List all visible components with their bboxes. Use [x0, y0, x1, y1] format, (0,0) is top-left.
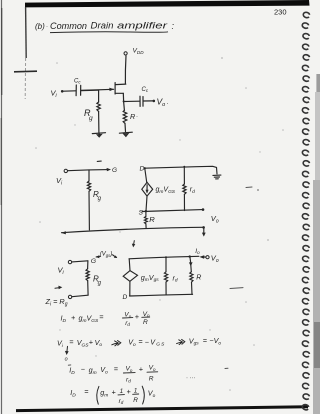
- arrow between circuits: [132, 241, 136, 248]
- CIRCUIT 2 : small-signal equivalent: [61, 161, 221, 237]
- resistor RL 2: [144, 211, 147, 228]
- svg-text:G: G: [112, 167, 117, 174]
- node Vi- terminal 3: [68, 295, 71, 298]
- wire source to D rail: [129, 282, 131, 296]
- dependent source gmVgs 2: [142, 182, 153, 196]
- svg-text:+: +: [71, 313, 75, 322]
- svg-text:(b): (b): [35, 22, 45, 31]
- fraction bars line 1: [123, 317, 150, 318]
- svg-text:·: ·: [46, 24, 48, 30]
- stray pen marks and scan speckles: [225, 187, 259, 369]
- ground 3 (top right): [213, 175, 221, 179]
- svg-text:R: R: [133, 397, 138, 404]
- node S junction: [145, 210, 147, 212]
- top black scan bar: [25, 0, 310, 7]
- svg-text:+: +: [89, 338, 93, 347]
- CIRCUIT 3 : output-impedance equivalent: [68, 255, 209, 299]
- fraction bars line 3: [123, 372, 157, 373]
- wire S to Vo: [142, 210, 202, 212]
- left page border vertical line: [25, 7, 28, 58]
- svg-text:R: R: [196, 274, 201, 281]
- svg-text:· ···: · ···: [186, 376, 196, 382]
- svg-text:Drain: Drain: [91, 21, 114, 31]
- EQUATION line 1: ID + gmVGS = Vo/rd + Vo/R: [61, 311, 151, 327]
- svg-text:amplifier: amplifier: [117, 21, 168, 31]
- resistor R load: [123, 110, 127, 131]
- node D junction: [144, 167, 146, 169]
- wire bottom rail 3: [130, 294, 193, 296]
- ground 2: [119, 132, 132, 136]
- bottom black scan bar: [16, 407, 308, 411]
- svg-text:R: R: [143, 319, 148, 326]
- arrow Io pointing left: [199, 255, 204, 259]
- svg-text:230: 230: [274, 8, 287, 17]
- wire output tap: [124, 100, 140, 102]
- svg-text:o: o: [65, 357, 68, 363]
- svg-text:R: R: [149, 376, 154, 383]
- left margin horizontal dash: [14, 70, 37, 73]
- arrow Zi: [55, 286, 62, 290]
- dependent source gmVgs 3: [123, 271, 137, 282]
- left screen-edge line: [1, 0, 3, 414]
- svg-text:Common: Common: [50, 21, 87, 31]
- wire rail corner down to source: [128, 259, 131, 271]
- svg-text:+: +: [135, 312, 139, 321]
- node Vo terminal 3: [206, 256, 209, 259]
- svg-text:1: 1: [134, 387, 138, 394]
- svg-text:D: D: [140, 166, 145, 173]
- wire source bottom to S: [146, 196, 147, 211]
- implies arrow 1: [112, 341, 121, 346]
- EQUATION line 4: ID = (gm + 1/rd + 1/R) Vo: [70, 387, 155, 405]
- annotation arrow to G: [96, 255, 100, 258]
- implies arrow 2: [177, 339, 185, 344]
- wire Vi to C1: [63, 90, 76, 92]
- svg-text:=: =: [99, 313, 103, 322]
- transistor M1: [81, 83, 126, 94]
- svg-text:=: =: [69, 338, 73, 347]
- node Vo terminal: [153, 100, 156, 103]
- resistor rd 2: [183, 166, 186, 211]
- parentheses line 4: [97, 386, 145, 404]
- node Vi terminal: [61, 90, 64, 93]
- svg-text:G: G: [91, 258, 96, 265]
- svg-text:R: R: [130, 112, 135, 121]
- TITLE: [35, 21, 175, 31]
- wire source down: [123, 93, 124, 110]
- svg-text:R: R: [149, 215, 155, 224]
- svg-text:+: +: [139, 365, 143, 374]
- svg-text:+: +: [112, 388, 116, 397]
- node Vo terminal 2: [202, 208, 205, 211]
- wire VDD to drain: [124, 56, 127, 84]
- resistor Rg1: [97, 90, 100, 132]
- resistor Rg 2: [87, 170, 90, 230]
- wire top rail 3: [129, 256, 199, 259]
- stray dash below zero: [68, 364, 71, 366]
- EQUATION line 2: Vi = VGS + Vo => Vo = -VGS => VGS = -Vo: [57, 336, 221, 349]
- svg-text:=: =: [84, 387, 88, 396]
- svg-text:·: ·: [136, 114, 138, 120]
- node Vi+ terminal 3: [68, 260, 71, 263]
- node Vi terminal 2: [64, 169, 67, 172]
- spiral binding rings: [302, 12, 311, 411]
- svg-text:Zi = Rg: Zi = Rg: [45, 297, 68, 307]
- EQUATION line 3: ID - gmVo = Vo/rd + Vo/R: [69, 364, 156, 383]
- ground 1: [92, 133, 105, 138]
- wire C1 to gate with junction: [81, 89, 99, 91]
- resistor Rg 3: [86, 261, 89, 295]
- title underline: [50, 31, 168, 34]
- polarity dash: [97, 160, 101, 162]
- arrow Vi to zero: [65, 346, 69, 355]
- svg-text:1: 1: [120, 388, 124, 395]
- CIRCUIT 1 : common drain amplifier schematic: [61, 52, 155, 137]
- svg-text:(Vgs): (Vgs): [100, 252, 112, 258]
- wire bottom to Vi-: [72, 295, 88, 297]
- wire D to source top: [145, 168, 147, 182]
- fraction bars line 4: [118, 393, 139, 396]
- right gray scan strip: [316, 74, 320, 414]
- svg-text:=: =: [114, 364, 118, 373]
- resistor R 3 with junction and arrow: [189, 255, 194, 294]
- capacitor Cc input: [76, 85, 81, 96]
- svg-text:Cc: Cc: [74, 79, 81, 85]
- ground 4 arrow bottom right: [202, 226, 206, 237]
- wire C2 to Vo: [143, 100, 153, 102]
- wire top rail D to ground: [145, 166, 217, 174]
- svg-text:+: +: [127, 387, 131, 396]
- svg-text:=: =: [203, 336, 207, 345]
- svg-text:S: S: [139, 210, 144, 217]
- wire Vi+ to G: [72, 261, 88, 262]
- svg-text:=: =: [138, 337, 142, 346]
- node VDD terminal: [124, 52, 127, 55]
- resistor rd 3: [164, 256, 167, 295]
- annotation hook into rail: [113, 255, 117, 258]
- wire bottom rail: [62, 227, 204, 232]
- capacitor Cc output: [140, 96, 143, 106]
- wire Vi to G: [68, 170, 109, 171]
- svg-text:D: D: [123, 294, 128, 301]
- svg-text:−: −: [81, 364, 85, 373]
- svg-text:Cc: Cc: [142, 87, 149, 93]
